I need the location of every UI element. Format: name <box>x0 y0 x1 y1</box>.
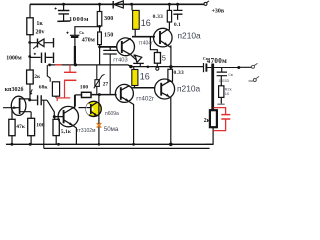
node jfet drain <box>28 98 31 101</box>
svg-text:+30в: +30в <box>212 8 225 14</box>
svg-text:100: 100 <box>80 84 89 90</box>
wire ground return rail <box>44 147 210 149</box>
terminal +30v <box>204 2 207 5</box>
capacitor C9 red added output <box>213 108 230 131</box>
svg-text:кп302б: кп302б <box>5 86 24 93</box>
svg-text:47к: 47к <box>16 124 26 130</box>
svg-text:10: 10 <box>225 91 230 96</box>
node left rail junction B <box>28 55 31 58</box>
resistor R8 68k <box>47 65 50 82</box>
node Q5 base <box>53 115 56 118</box>
svg-text:0.33: 0.33 <box>174 70 184 76</box>
svg-text:1к: 1к <box>36 21 43 27</box>
node mid rail at emitter <box>169 65 172 68</box>
svg-text:27: 27 <box>103 81 109 87</box>
svg-text:16: 16 <box>140 71 150 81</box>
wire left rail down from top <box>29 4 31 100</box>
wire diagonal to Q5 base <box>47 100 54 116</box>
capacitor C5 under base <box>109 47 111 50</box>
svg-text:п609а: п609а <box>105 111 119 117</box>
svg-text:0.1: 0.1 <box>174 22 181 28</box>
svg-text:5: 5 <box>162 54 166 63</box>
svg-text:20v: 20v <box>36 29 45 35</box>
resistor R4 150 <box>98 32 102 45</box>
resistor R13 zobel <box>219 86 224 98</box>
resistor R12 0.33 lower <box>170 67 172 70</box>
wire base rail gt402 <box>91 94 117 96</box>
node mid rail small <box>147 66 150 69</box>
wire Q6 collector line <box>98 95 100 145</box>
node mid rail left <box>48 64 51 67</box>
wire collector Q3 to rail <box>129 86 133 88</box>
resistor R9 100 horizontal <box>82 92 92 97</box>
svg-text:300: 300 <box>104 15 113 22</box>
node top rail at 16 resistor <box>130 3 133 6</box>
resistor R2 2k <box>27 70 34 84</box>
capacitor C6 red added <box>56 65 76 101</box>
svg-text:Сь: Сь <box>79 30 85 35</box>
svg-text:гт404г: гт404г <box>139 41 153 47</box>
capacitor C3 470u <box>75 27 100 36</box>
node output <box>237 66 240 69</box>
diode VD1 <box>37 39 39 48</box>
wire top supply rail <box>30 3 204 5</box>
resistor R15 47k <box>11 108 13 145</box>
svg-text:68к: 68к <box>39 84 49 90</box>
svg-text:16: 16 <box>141 18 151 28</box>
svg-text:150: 150 <box>104 32 113 39</box>
svg-text:п210а: п210а <box>177 83 201 93</box>
diode VD3 diagonal <box>130 54 137 60</box>
resistor R14 2k thick <box>210 110 217 127</box>
resistor R11 16 yellow lower <box>133 67 135 70</box>
wire bottom rail <box>6 143 213 145</box>
svg-text:1000м: 1000м <box>6 56 22 62</box>
svg-text:Св: Св <box>228 73 233 77</box>
svg-text:гт402г: гт402г <box>136 95 155 102</box>
resistor R6 0.33 <box>168 3 171 6</box>
svg-text:50ма: 50ма <box>104 126 119 133</box>
resistor R5 16 yellow <box>131 4 133 10</box>
node bottom rail dots <box>10 143 13 146</box>
transistor U2 p210a bottom <box>155 79 175 99</box>
wire base of U2 <box>133 87 155 89</box>
node left rail junction A <box>28 41 31 44</box>
wire Q5 to Q6 <box>79 107 92 109</box>
resistor R7 5 <box>154 53 160 64</box>
resistor R1 1k 20v <box>27 18 33 35</box>
resistor R16 100 <box>30 112 32 145</box>
wire emitter Q3 down <box>129 101 134 144</box>
resistor R17 5.1k <box>55 117 57 145</box>
diode VD2 top <box>112 1 114 9</box>
svg-text:4700м: 4700м <box>207 57 227 65</box>
svg-text:гт3102м: гт3102м <box>77 128 96 134</box>
capacitor C4 0.1 <box>176 3 179 6</box>
red tick on mid rail <box>55 64 62 66</box>
svg-text:5,1к: 5,1к <box>61 129 72 135</box>
capacitor C7 4700u <box>203 63 205 72</box>
node mid rail at 16 <box>129 65 132 68</box>
node trimmer junction <box>98 93 101 96</box>
capacitor C8 zobel <box>220 68 222 86</box>
terminal output 1 <box>252 63 258 68</box>
wire emitter of U1 down <box>168 45 171 66</box>
transistor Q4 kp302b jfet <box>11 96 26 115</box>
orange X current mark <box>97 123 102 128</box>
svg-text:1000м: 1000м <box>69 16 89 23</box>
transistor Q5 gt3102m <box>54 116 63 118</box>
wire base of U1 <box>132 36 155 38</box>
terminal open circle mid <box>156 67 159 70</box>
node top rail at 300 <box>98 3 101 6</box>
svg-text:гт403: гт403 <box>113 57 127 63</box>
capacitor C2 branch <box>30 56 53 58</box>
wire input ground vertical <box>43 100 45 148</box>
capacitor C10 coupling <box>30 99 47 101</box>
svg-text:470м: 470м <box>82 37 95 43</box>
svg-text:0.33: 0.33 <box>153 14 163 20</box>
transistor U1 p210a top <box>154 28 173 47</box>
terminal output 2 <box>249 76 260 81</box>
resistor R3 300 <box>99 4 101 32</box>
wire base of Q2 <box>100 46 117 48</box>
svg-text:0,033: 0,033 <box>219 78 230 83</box>
transistor Q6 p609a yellow <box>86 101 101 116</box>
wire mid horizontal rail <box>48 65 203 67</box>
svg-text:100: 100 <box>36 123 45 129</box>
svg-text:2к: 2к <box>34 74 41 80</box>
ground mark grey <box>217 103 224 105</box>
svg-text:п210а: п210а <box>178 31 202 41</box>
transistor Q2 gt403 <box>117 38 135 56</box>
wire thick speaker line <box>211 64 214 111</box>
arrow annotation on rail <box>30 89 32 93</box>
wire diode branch <box>30 42 53 44</box>
node mid rail 470u <box>74 63 77 66</box>
trimmer R10 27 <box>96 65 98 95</box>
svg-text:2к: 2к <box>204 118 211 124</box>
wire emitter U2 down <box>170 97 172 145</box>
transistor Q3 gt402g <box>115 84 133 102</box>
capacitor C1 1000u top <box>62 3 65 6</box>
